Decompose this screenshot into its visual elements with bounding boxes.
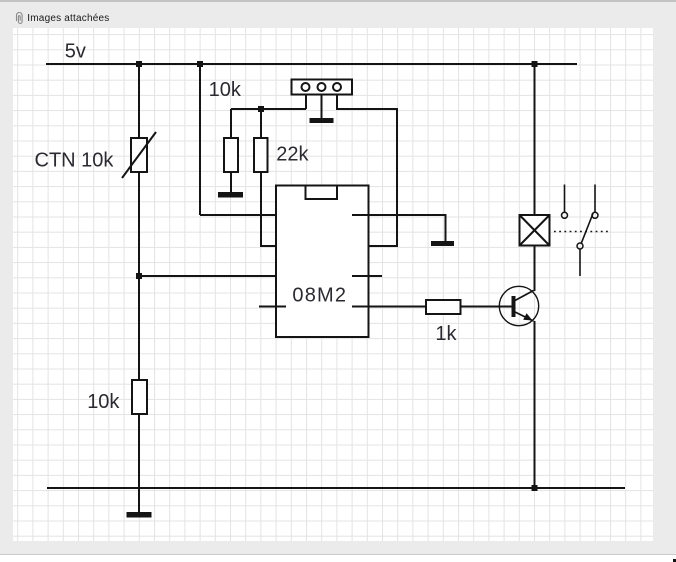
thermistor RT1 body xyxy=(131,138,147,172)
ground symbol J1 pin2 xyxy=(310,118,334,123)
switch S1 contact B circle xyxy=(592,212,598,218)
resistor R5 1k body xyxy=(426,300,461,314)
transistor Q1 collector line xyxy=(515,291,534,301)
wire thermistor branch top xyxy=(138,64,140,138)
switch S1 common stub xyxy=(579,249,581,276)
transistor Q1 base bar xyxy=(512,296,516,317)
switch S1 contact B stub xyxy=(594,185,596,213)
wire thermistor to node D xyxy=(138,172,140,276)
node C junction dot xyxy=(532,61,538,67)
resistor R2 10k body xyxy=(132,380,147,414)
ground symbol IC right pin1 xyxy=(431,241,454,246)
wire IC right pin4 to R5 xyxy=(352,306,426,308)
thermistor RT1 diagonal xyxy=(122,132,156,178)
svg-text:10k: 10k xyxy=(87,391,120,413)
relay K1 coil box xyxy=(520,215,550,246)
wire 22k top xyxy=(260,109,262,138)
ground symbol R3 xyxy=(218,192,243,198)
wire node E horizontal y109 xyxy=(231,108,306,110)
wire relay to Q1 collector xyxy=(534,246,536,292)
switch S1 common circle xyxy=(577,243,583,249)
wire J1 pin3 to IC right pin2 xyxy=(337,95,397,247)
relay K1 X diagonal 2 xyxy=(520,215,550,246)
wire J1 pin1 down xyxy=(305,95,307,110)
wire node D to IC pin3 xyxy=(139,275,286,277)
pin stub IC right pin3 xyxy=(352,275,382,277)
svg-text:1k: 1k xyxy=(435,323,457,345)
IC U1 notch xyxy=(306,186,338,200)
node A junction dot xyxy=(136,61,142,67)
switch S1 contact A stub xyxy=(564,185,566,213)
wire R2 to ground rail xyxy=(138,414,140,512)
wire 5V to IC pin1 horizontal xyxy=(200,214,286,216)
node D junction dot xyxy=(136,273,142,279)
transistor Q1 emitter arrow xyxy=(523,313,532,320)
svg-text:22k: 22k xyxy=(276,143,309,165)
node B junction dot xyxy=(197,61,203,67)
svg-text:10k: 10k xyxy=(209,79,242,101)
pin stub IC left pin4 xyxy=(259,306,286,308)
relay K1 X diagonal 1 xyxy=(520,215,550,246)
connector J1 pin2 circle xyxy=(318,83,326,91)
switch S1 contact A circle xyxy=(562,212,568,218)
wire Q1 emitter to ground rail xyxy=(534,321,536,488)
ground symbol bottom xyxy=(127,512,152,518)
wire 5V to relay K1 xyxy=(534,64,536,215)
svg-text:CTN 10k: CTN 10k xyxy=(35,149,115,171)
wire node D to R2 xyxy=(138,276,140,380)
wire R3 top xyxy=(230,109,232,138)
switch S1 lever xyxy=(581,214,593,244)
IC U1 08M2 body xyxy=(276,186,369,338)
wire ground rail stub to ground symbol xyxy=(138,488,140,512)
ground rail xyxy=(47,487,625,489)
wire IC right pin1 to ground xyxy=(352,215,446,241)
wire 5V to IC pin1 vertical xyxy=(199,64,201,215)
connector J1 pin1 circle xyxy=(302,83,310,91)
wire J1 pin2 to ground xyxy=(321,95,323,119)
transistor Q1 circle xyxy=(499,286,538,325)
svg-text:08M2: 08M2 xyxy=(292,284,347,306)
node F junction dot xyxy=(532,485,538,491)
svg-text:5v: 5v xyxy=(65,40,86,62)
switch S1 mechanical link dotted xyxy=(554,231,611,233)
wire 22k to IC pin2 xyxy=(261,172,286,246)
wire R5 to Q1 base xyxy=(461,306,513,308)
node E junction dot xyxy=(258,106,264,112)
wire R3 to ground xyxy=(230,172,232,192)
connector J1 body xyxy=(292,80,353,95)
power rail 5V xyxy=(46,63,577,65)
connector J1 pin3 circle xyxy=(333,83,341,91)
resistor R3 10k body xyxy=(224,138,238,172)
transistor Q1 emitter line xyxy=(515,312,534,321)
resistor R4 22k body xyxy=(254,138,268,172)
